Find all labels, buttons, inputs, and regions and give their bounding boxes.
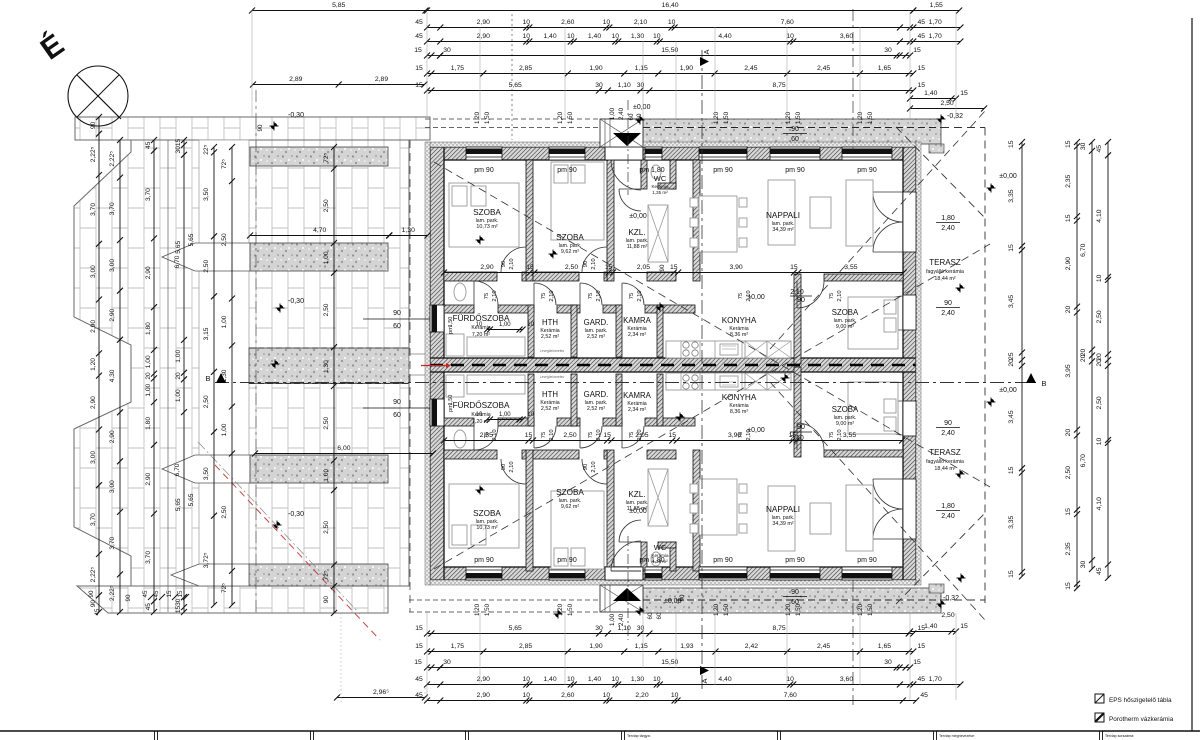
svg-text:30: 30 <box>637 82 645 89</box>
svg-text:3,70: 3,70 <box>109 536 116 549</box>
svg-text:45: 45 <box>1096 145 1103 153</box>
svg-text:2,85: 2,85 <box>519 65 532 72</box>
svg-text:45: 45 <box>415 33 423 40</box>
svg-text:90: 90 <box>393 310 401 317</box>
svg-text:2,90: 2,90 <box>1065 257 1072 270</box>
svg-text:1,75: 1,75 <box>451 65 464 72</box>
svg-text:2,52 m²: 2,52 m² <box>541 334 559 340</box>
svg-text:2,90: 2,90 <box>109 430 116 443</box>
svg-text:15: 15 <box>790 264 798 271</box>
svg-text:1,50: 1,50 <box>448 395 454 406</box>
svg-text:3,50: 3,50 <box>203 188 210 201</box>
svg-text:2,50: 2,50 <box>323 416 330 429</box>
svg-text:15: 15 <box>415 65 423 72</box>
svg-text:2,10: 2,10 <box>790 435 804 442</box>
svg-text:20: 20 <box>1096 359 1103 367</box>
svg-text:3,55: 3,55 <box>843 432 856 439</box>
svg-text:2,89: 2,89 <box>289 76 302 83</box>
svg-text:72⁵: 72⁵ <box>323 153 330 163</box>
svg-text:2,50: 2,50 <box>323 521 330 534</box>
svg-text:30: 30 <box>1080 142 1087 150</box>
svg-text:1,20: 1,20 <box>557 603 564 616</box>
svg-text:B: B <box>1041 379 1046 388</box>
svg-text:15: 15 <box>175 139 182 147</box>
svg-text:15: 15 <box>603 432 611 439</box>
svg-text:pm 90: pm 90 <box>474 557 494 564</box>
svg-text:HTH: HTH <box>542 318 558 327</box>
svg-text:2,89: 2,89 <box>375 76 388 83</box>
svg-text:75: 75 <box>588 293 594 299</box>
svg-text:1,50: 1,50 <box>448 317 454 328</box>
svg-text:6,00: 6,00 <box>337 445 350 452</box>
svg-text:TERASZ: TERASZ <box>929 448 961 457</box>
svg-text:90: 90 <box>659 264 666 271</box>
svg-text:SZOBA: SZOBA <box>832 405 859 414</box>
svg-text:3,60: 3,60 <box>840 33 853 40</box>
svg-text:2,52 m²: 2,52 m² <box>541 406 559 412</box>
svg-text:1,00: 1,00 <box>145 383 152 396</box>
svg-text:2,50: 2,50 <box>221 233 228 246</box>
svg-text:-0,30: -0,30 <box>288 511 304 518</box>
svg-text:1,40: 1,40 <box>543 33 556 40</box>
svg-text:30: 30 <box>443 659 451 666</box>
svg-text:45: 45 <box>920 692 928 699</box>
svg-text:2,90: 2,90 <box>477 33 490 40</box>
svg-text:30: 30 <box>884 47 892 54</box>
svg-text:45: 45 <box>94 608 101 615</box>
svg-text:GARD.: GARD. <box>584 390 609 399</box>
svg-text:pm 90: pm 90 <box>713 557 733 564</box>
svg-text:45: 45 <box>145 603 152 611</box>
svg-text:2,35: 2,35 <box>1065 174 1072 187</box>
svg-text:SZOBA: SZOBA <box>556 233 584 242</box>
svg-text:90: 90 <box>90 600 97 608</box>
svg-text:1,65: 1,65 <box>878 643 891 650</box>
svg-text:2,45: 2,45 <box>744 65 757 72</box>
svg-text:1,20: 1,20 <box>90 358 97 371</box>
svg-text:pm 90: pm 90 <box>857 167 877 174</box>
svg-text:1,15: 1,15 <box>635 65 648 72</box>
svg-text:10: 10 <box>523 692 531 699</box>
svg-text:SZOBA: SZOBA <box>473 208 501 217</box>
svg-text:2,20: 2,20 <box>635 692 648 699</box>
svg-text:1,00: 1,00 <box>323 251 330 264</box>
svg-text:3,35: 3,35 <box>1008 515 1015 528</box>
svg-text:2,90: 2,90 <box>477 676 490 683</box>
svg-text:6,70: 6,70 <box>174 463 181 476</box>
svg-text:7,20 m²: 7,20 m² <box>472 332 490 338</box>
svg-text:45: 45 <box>1096 567 1103 575</box>
svg-text:1,20: 1,20 <box>713 603 720 616</box>
svg-text:60: 60 <box>791 599 799 606</box>
svg-text:2,10: 2,10 <box>837 429 843 440</box>
svg-text:Tervlap tárgya:: Tervlap tárgya: <box>627 734 651 738</box>
svg-text:4,40: 4,40 <box>718 33 731 40</box>
svg-text:2,50: 2,50 <box>941 612 954 619</box>
svg-text:2,90: 2,90 <box>90 320 97 333</box>
svg-text:90: 90 <box>88 590 95 597</box>
svg-text:30: 30 <box>175 598 182 606</box>
svg-text:WC: WC <box>654 174 667 183</box>
svg-text:90: 90 <box>797 424 805 431</box>
svg-text:2,35: 2,35 <box>1065 542 1072 555</box>
svg-text:WC: WC <box>654 543 667 552</box>
svg-text:2,50: 2,50 <box>221 505 228 518</box>
svg-text:72⁵: 72⁵ <box>221 583 228 593</box>
svg-text:1,50: 1,50 <box>567 603 574 616</box>
svg-text:2,10: 2,10 <box>790 289 804 296</box>
svg-text:90: 90 <box>797 297 805 304</box>
svg-text:2,22⁵: 2,22⁵ <box>90 567 97 583</box>
svg-text:3,60: 3,60 <box>840 676 853 683</box>
svg-text:2,90: 2,90 <box>477 19 490 26</box>
svg-text:2,50: 2,50 <box>565 264 578 271</box>
svg-text:9,62 m²: 9,62 m² <box>561 249 579 255</box>
svg-text:2,90: 2,90 <box>477 692 490 699</box>
svg-text:10: 10 <box>476 322 483 328</box>
svg-text:pm 90: pm 90 <box>557 557 577 564</box>
svg-text:15: 15 <box>918 82 926 89</box>
svg-text:2,52 m²: 2,52 m² <box>587 406 605 412</box>
svg-text:20: 20 <box>145 372 152 380</box>
svg-text:KAMRA: KAMRA <box>623 391 652 400</box>
svg-text:15: 15 <box>414 659 422 666</box>
svg-text:-0,30: -0,30 <box>288 298 304 305</box>
svg-text:10: 10 <box>523 19 531 26</box>
svg-text:60: 60 <box>791 136 799 143</box>
svg-text:pm 90: pm 90 <box>785 167 805 174</box>
svg-text:NAPPALI: NAPPALI <box>766 211 800 220</box>
svg-text:7,60: 7,60 <box>784 692 797 699</box>
svg-text:30: 30 <box>595 625 603 632</box>
svg-text:1,40: 1,40 <box>588 33 601 40</box>
svg-text:10: 10 <box>603 19 611 26</box>
svg-text:15: 15 <box>1065 582 1072 590</box>
svg-text:1,80: 1,80 <box>941 503 955 510</box>
svg-text:1,55: 1,55 <box>930 2 943 9</box>
svg-text:45: 45 <box>415 19 423 26</box>
svg-text:60: 60 <box>393 412 401 419</box>
svg-text:30: 30 <box>1080 561 1087 569</box>
svg-text:1,00: 1,00 <box>609 107 616 120</box>
svg-text:15: 15 <box>1008 140 1015 148</box>
svg-text:10,73 m²: 10,73 m² <box>476 525 497 531</box>
svg-text:15: 15 <box>669 432 677 439</box>
svg-text:30: 30 <box>443 47 451 54</box>
svg-text:pm 90: pm 90 <box>857 557 877 564</box>
svg-text:2,10: 2,10 <box>591 258 597 269</box>
svg-text:1,00: 1,00 <box>499 322 511 328</box>
svg-text:2,40: 2,40 <box>941 310 955 317</box>
svg-text:2,90: 2,90 <box>145 472 152 485</box>
svg-text:3,95: 3,95 <box>1065 364 1072 377</box>
svg-text:20: 20 <box>1065 429 1072 437</box>
svg-text:5,65: 5,65 <box>509 82 522 89</box>
svg-text:pm 90: pm 90 <box>474 167 494 174</box>
svg-text:90: 90 <box>791 126 799 133</box>
svg-text:KONYHA: KONYHA <box>722 316 757 325</box>
svg-text:Porotherm vázkerámia: Porotherm vázkerámia <box>1109 716 1174 723</box>
svg-text:5,65: 5,65 <box>509 625 522 632</box>
svg-text:4,70: 4,70 <box>313 227 326 234</box>
svg-text:Kerámia: Kerámia <box>651 184 669 189</box>
svg-text:60: 60 <box>393 323 401 330</box>
svg-text:1,20: 1,20 <box>857 111 864 124</box>
svg-text:1,35 m²: 1,35 m² <box>652 190 668 195</box>
svg-text:2,10: 2,10 <box>637 429 643 440</box>
svg-text:45: 45 <box>918 676 926 683</box>
svg-text:1,50: 1,50 <box>567 111 574 124</box>
svg-text:6,70: 6,70 <box>1080 454 1087 467</box>
svg-text:2,50: 2,50 <box>203 395 210 408</box>
svg-text:4,40: 4,40 <box>718 676 731 683</box>
svg-text:1,00: 1,00 <box>175 350 182 363</box>
svg-text:75: 75 <box>484 432 490 438</box>
svg-text:1,30: 1,30 <box>402 227 415 234</box>
svg-text:2,10: 2,10 <box>596 290 602 301</box>
svg-text:1,30: 1,30 <box>631 33 644 40</box>
svg-text:2,90: 2,90 <box>90 396 97 409</box>
svg-text:15: 15 <box>918 65 926 72</box>
svg-text:45: 45 <box>918 33 926 40</box>
svg-text:10: 10 <box>476 412 483 418</box>
svg-text:5,85: 5,85 <box>332 2 345 9</box>
svg-text:1,00: 1,00 <box>175 389 182 402</box>
svg-text:2,10: 2,10 <box>591 461 597 472</box>
svg-text:2,22⁵: 2,22⁵ <box>90 146 97 162</box>
svg-text:2,60: 2,60 <box>561 692 574 699</box>
svg-text:Levegőelvezetés: Levegőelvezetés <box>540 375 564 379</box>
svg-text:1,40: 1,40 <box>543 676 556 683</box>
svg-text:pm 90: pm 90 <box>713 167 733 174</box>
svg-text:1,40: 1,40 <box>924 90 937 97</box>
svg-text:2,22⁵: 2,22⁵ <box>109 151 116 167</box>
svg-text:1,50: 1,50 <box>723 603 730 616</box>
svg-text:10: 10 <box>527 412 534 418</box>
svg-text:11,88 m²: 11,88 m² <box>627 244 648 250</box>
svg-text:2,85: 2,85 <box>519 643 532 650</box>
svg-text:15: 15 <box>175 606 182 614</box>
svg-text:15: 15 <box>166 590 173 597</box>
svg-text:3,50: 3,50 <box>203 467 210 480</box>
svg-text:10: 10 <box>603 692 611 699</box>
svg-text:3,00: 3,00 <box>90 451 97 464</box>
svg-text:60: 60 <box>636 113 643 120</box>
svg-text:FÜRDŐSZOBA: FÜRDŐSZOBA <box>453 400 510 410</box>
svg-text:2,50: 2,50 <box>940 100 953 107</box>
svg-text:15: 15 <box>960 90 968 97</box>
svg-text:3,00: 3,00 <box>109 259 116 272</box>
svg-text:15: 15 <box>913 47 921 54</box>
svg-text:10: 10 <box>671 692 679 699</box>
svg-text:1,40: 1,40 <box>588 676 601 683</box>
svg-text:20: 20 <box>1008 359 1015 367</box>
svg-text:2,10: 2,10 <box>492 290 498 301</box>
svg-text:A: A <box>702 49 711 54</box>
svg-text:10: 10 <box>523 33 531 40</box>
svg-text:15: 15 <box>960 623 968 630</box>
svg-text:Levegőelvezetés: Levegőelvezetés <box>540 349 564 353</box>
svg-text:2,45: 2,45 <box>817 65 830 72</box>
svg-text:25: 25 <box>1008 352 1015 360</box>
svg-text:15: 15 <box>525 432 533 439</box>
svg-text:60: 60 <box>647 612 654 619</box>
svg-text:15: 15 <box>177 590 184 597</box>
svg-text:1,20: 1,20 <box>857 603 864 616</box>
svg-text:15: 15 <box>1065 140 1072 148</box>
svg-text:60: 60 <box>656 612 663 619</box>
svg-text:2,90: 2,90 <box>480 264 493 271</box>
svg-text:±0,00: ±0,00 <box>664 598 682 605</box>
svg-text:1,50: 1,50 <box>723 111 730 124</box>
svg-text:75: 75 <box>629 432 635 438</box>
svg-text:2,90: 2,90 <box>145 266 152 279</box>
svg-text:1,00: 1,00 <box>221 315 228 328</box>
svg-text:1,30: 1,30 <box>221 369 228 382</box>
svg-text:34,39 m²: 34,39 m² <box>772 521 793 527</box>
svg-text:22⁵: 22⁵ <box>203 144 210 154</box>
svg-text:KAMRA: KAMRA <box>623 316 652 325</box>
svg-text:75: 75 <box>738 293 744 299</box>
svg-text:1,80: 1,80 <box>145 417 152 430</box>
svg-text:1,50: 1,50 <box>867 111 874 124</box>
svg-text:10: 10 <box>786 33 794 40</box>
svg-text:4,30: 4,30 <box>109 369 116 382</box>
svg-text:3,70: 3,70 <box>109 202 116 215</box>
svg-text:30: 30 <box>595 82 603 89</box>
svg-text:90: 90 <box>125 594 132 601</box>
svg-text:5,65: 5,65 <box>175 241 182 254</box>
svg-text:1,90: 1,90 <box>680 65 693 72</box>
svg-text:2,10: 2,10 <box>492 429 498 440</box>
svg-text:15: 15 <box>1065 508 1072 516</box>
svg-text:90: 90 <box>257 124 264 131</box>
svg-text:18,44 m²: 18,44 m² <box>934 466 955 472</box>
svg-text:2,10: 2,10 <box>634 19 647 26</box>
svg-text:2,10: 2,10 <box>509 258 515 269</box>
svg-text:7,60: 7,60 <box>781 19 794 26</box>
svg-text:pm 90: pm 90 <box>557 167 577 174</box>
svg-text:10: 10 <box>653 676 661 683</box>
svg-text:75: 75 <box>541 293 547 299</box>
svg-text:1,00: 1,00 <box>145 355 152 368</box>
svg-text:15: 15 <box>415 82 423 89</box>
svg-text:10: 10 <box>612 676 620 683</box>
svg-text:8,36 m²: 8,36 m² <box>730 332 748 338</box>
svg-text:HTH: HTH <box>542 390 558 399</box>
svg-text:8,36 m²: 8,36 m² <box>730 409 748 415</box>
svg-text:6,70: 6,70 <box>1080 243 1087 256</box>
svg-text:15: 15 <box>605 264 613 271</box>
svg-text:90: 90 <box>944 420 952 427</box>
svg-text:1,00: 1,00 <box>499 412 511 418</box>
svg-text:2,10: 2,10 <box>746 429 752 440</box>
svg-text:75: 75 <box>738 432 744 438</box>
svg-text:45: 45 <box>145 141 152 149</box>
svg-text:2,60: 2,60 <box>561 19 574 26</box>
svg-text:10: 10 <box>1096 274 1103 282</box>
svg-text:1,40: 1,40 <box>924 623 937 630</box>
svg-text:1,50: 1,50 <box>867 603 874 616</box>
svg-text:2,50: 2,50 <box>1065 466 1072 479</box>
svg-text:75: 75 <box>829 432 835 438</box>
svg-text:15: 15 <box>670 264 678 271</box>
svg-text:34,39 m²: 34,39 m² <box>772 227 793 233</box>
svg-text:pm 1,80: pm 1,80 <box>639 167 664 174</box>
svg-text:1,00: 1,00 <box>323 469 330 482</box>
svg-text:2,10: 2,10 <box>837 290 843 301</box>
svg-text:1,00: 1,00 <box>609 613 616 626</box>
svg-text:2,10: 2,10 <box>596 429 602 440</box>
svg-text:3,55: 3,55 <box>844 264 857 271</box>
svg-text:75: 75 <box>588 432 594 438</box>
svg-text:45: 45 <box>153 590 160 597</box>
svg-text:5,65: 5,65 <box>175 498 182 511</box>
svg-text:1,70: 1,70 <box>929 19 942 26</box>
svg-text:15: 15 <box>1065 214 1072 222</box>
svg-text:3,70: 3,70 <box>90 513 97 526</box>
svg-text:2,42: 2,42 <box>745 643 758 650</box>
svg-text:10: 10 <box>668 19 676 26</box>
svg-text:2,50: 2,50 <box>563 432 576 439</box>
svg-text:72⁵: 72⁵ <box>221 159 228 169</box>
svg-text:3,70: 3,70 <box>90 203 97 216</box>
svg-text:5,65: 5,65 <box>188 233 195 246</box>
svg-text:TERASZ: TERASZ <box>929 258 961 267</box>
svg-text:9,62 m²: 9,62 m² <box>561 504 579 510</box>
svg-text:10: 10 <box>523 676 531 683</box>
svg-text:10: 10 <box>567 33 575 40</box>
svg-text:8,75: 8,75 <box>772 625 785 632</box>
svg-text:10: 10 <box>1096 438 1103 446</box>
svg-text:1,80: 1,80 <box>941 215 955 222</box>
svg-text:15: 15 <box>1008 466 1015 474</box>
svg-text:1,50: 1,50 <box>484 111 491 124</box>
svg-text:15: 15 <box>415 625 423 632</box>
svg-text:SZOBA: SZOBA <box>832 308 859 317</box>
svg-text:3,35: 3,35 <box>1008 189 1015 202</box>
svg-text:1,80: 1,80 <box>145 322 152 335</box>
svg-text:3,00: 3,00 <box>109 480 116 493</box>
svg-text:B: B <box>205 374 210 383</box>
svg-text:8,75: 8,75 <box>772 82 785 89</box>
svg-text:Tervlap sorszáma:: Tervlap sorszáma: <box>1105 734 1134 738</box>
svg-text:15: 15 <box>918 643 926 650</box>
svg-text:1,10: 1,10 <box>618 82 631 89</box>
svg-text:3,15: 3,15 <box>203 327 210 340</box>
svg-text:45: 45 <box>415 676 423 683</box>
svg-text:4,10: 4,10 <box>1096 209 1103 222</box>
svg-text:15: 15 <box>913 659 921 666</box>
svg-text:3,90: 3,90 <box>729 264 742 271</box>
svg-text:75: 75 <box>484 293 490 299</box>
svg-text:15: 15 <box>1008 244 1015 252</box>
svg-text:2,10: 2,10 <box>746 290 752 301</box>
svg-text:2,10: 2,10 <box>549 429 555 440</box>
svg-text:18,44 m²: 18,44 m² <box>934 276 955 282</box>
svg-text:45: 45 <box>142 590 149 597</box>
svg-text:2,34 m²: 2,34 m² <box>628 332 646 338</box>
svg-text:3,45: 3,45 <box>1008 410 1015 423</box>
svg-text:20: 20 <box>175 372 182 380</box>
svg-text:2,90: 2,90 <box>109 308 116 321</box>
svg-text:90: 90 <box>583 464 589 470</box>
svg-text:45: 45 <box>918 19 926 26</box>
svg-text:10: 10 <box>786 676 794 683</box>
svg-text:90: 90 <box>944 300 952 307</box>
svg-text:SZOBA: SZOBA <box>473 509 501 518</box>
svg-text:±0,00: ±0,00 <box>629 508 647 515</box>
